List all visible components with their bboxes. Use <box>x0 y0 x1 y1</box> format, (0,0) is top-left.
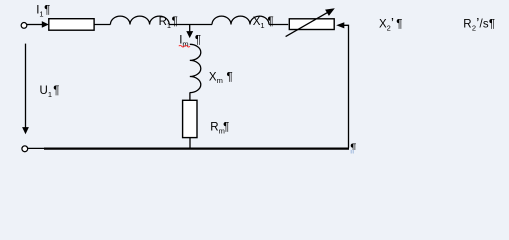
inductor X1 coil <box>110 16 169 24</box>
wire (Rm to bottom rail) <box>189 138 191 149</box>
current arrow I1 <box>42 21 49 28</box>
variable resistor R2'/s (box) <box>289 19 334 30</box>
resistor Rm (box) <box>183 100 197 137</box>
inductor X2' coil <box>212 16 269 24</box>
variable-resistor diagonal line <box>286 12 328 36</box>
svg-text:I1¶: I1¶ <box>36 4 50 18</box>
wire (coil to Rm box) <box>189 92 191 100</box>
node junction to magnetizing branch <box>189 25 191 32</box>
inductor Xm (magnetizing coil) <box>190 44 201 92</box>
variable-resistor arrowhead <box>325 8 335 16</box>
voltage arrow U1 head <box>22 127 29 134</box>
wire (terminal stub) <box>28 147 45 149</box>
wire <box>169 24 212 26</box>
current arrow I2' (pointing left) <box>336 22 344 28</box>
formatting-mark descender strokes <box>351 150 352 154</box>
wire <box>94 24 110 26</box>
formatting-mark mask below rail <box>349 150 358 156</box>
terminal (bottom input) <box>22 146 28 152</box>
wire (right branch down) <box>344 25 349 147</box>
current arrow Im <box>186 31 193 38</box>
terminal (top input) <box>21 23 27 29</box>
voltage arrow U1 line <box>25 44 27 128</box>
spellcheck squiggle under Im <box>179 45 190 47</box>
wire <box>27 24 43 26</box>
resistor R1 (box) <box>49 19 94 31</box>
wire <box>269 24 288 26</box>
wire (bottom rail) <box>44 147 349 149</box>
